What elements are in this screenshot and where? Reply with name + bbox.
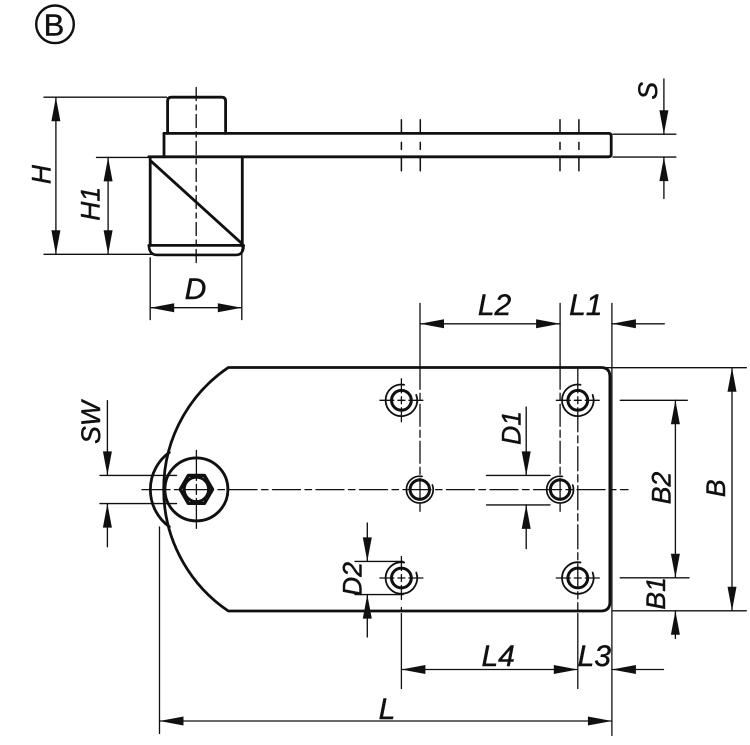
svg-text:D1: D1 bbox=[497, 411, 527, 445]
centerline column right holes bbox=[577, 369, 579, 611]
view label circle B bbox=[36, 6, 74, 44]
dimension H1 bbox=[97, 157, 149, 254]
side view: bar left end bbox=[163, 133, 166, 156]
pin inner hole bbox=[184, 477, 208, 501]
svg-text:B: B bbox=[44, 7, 65, 42]
dimension SW bbox=[100, 401, 177, 547]
side view: hole mark at x=420.3 bbox=[419, 120, 421, 171]
plate outline bbox=[164, 368, 610, 612]
svg-text:B: B bbox=[701, 479, 731, 497]
hole top-left bbox=[386, 385, 418, 417]
svg-text:L4: L4 bbox=[482, 640, 515, 673]
svg-text:L: L bbox=[379, 693, 396, 726]
dimension B2 bbox=[620, 400, 689, 578]
svg-text:L1: L1 bbox=[569, 289, 602, 322]
dimension H bbox=[44, 97, 167, 254]
svg-text:H1: H1 bbox=[76, 187, 106, 221]
svg-text:D2: D2 bbox=[338, 562, 368, 596]
dimension L bbox=[160, 720, 612, 722]
pin vertical centerline bbox=[195, 450, 197, 528]
side view: vertical centerline of boss bbox=[195, 88, 197, 266]
svg-text:B1: B1 bbox=[641, 577, 671, 609]
dimension L1 bbox=[612, 323, 664, 325]
hole bottom-left bbox=[386, 562, 418, 594]
extension line right of plate bbox=[611, 303, 613, 735]
dimension B1 bbox=[674, 611, 676, 639]
dimension S bbox=[613, 79, 676, 199]
centerline column middle-left bbox=[419, 303, 421, 367]
pin hexagon socket bbox=[180, 475, 212, 503]
hole bottom-right bbox=[562, 562, 594, 594]
svg-text:H: H bbox=[27, 164, 57, 184]
hole middle-left bbox=[406, 476, 433, 503]
svg-text:B2: B2 bbox=[647, 472, 677, 505]
dimension L4 bbox=[401, 669, 577, 671]
main horizontal centerline bbox=[142, 489, 628, 491]
dimension B bbox=[601, 368, 746, 611]
svg-text:L2: L2 bbox=[478, 289, 512, 322]
side view: square block right edge bbox=[241, 157, 244, 247]
hinge boss arc bbox=[150, 452, 169, 526]
hole top-right bbox=[562, 385, 594, 417]
dimension D2 bbox=[355, 523, 403, 637]
side view: diagonal line bbox=[151, 161, 241, 243]
centerline crosshair top-right hole bbox=[556, 399, 599, 401]
svg-text:D: D bbox=[185, 273, 207, 306]
dimension L2 bbox=[420, 323, 560, 325]
svg-text:SW: SW bbox=[76, 398, 106, 444]
side view: strap bar outline bbox=[149, 133, 611, 156]
side view: bottom lip bbox=[149, 246, 244, 255]
pin outer circle bbox=[165, 458, 228, 521]
side view: top boss block bbox=[168, 97, 226, 133]
extension line below bottom-left hole bbox=[400, 614, 402, 689]
dimension L3 bbox=[612, 669, 664, 671]
side view: square block bottom edge bbox=[149, 244, 244, 247]
centerline crosshair bottom-left hole bbox=[380, 577, 423, 579]
centerline crosshair bottom-right hole bbox=[556, 577, 599, 579]
svg-text:L3: L3 bbox=[578, 640, 612, 673]
svg-text:S: S bbox=[633, 82, 663, 100]
centerline column middle-right bbox=[559, 303, 561, 367]
hole middle-right bbox=[547, 476, 574, 503]
centerline crosshair top-left hole bbox=[142, 303, 628, 735]
side view: hole mark at x=401.4 bbox=[401, 120, 579, 171]
dimension D1 bbox=[487, 407, 551, 549]
side view: hole mark at x=560 bbox=[559, 120, 561, 171]
extension line left of plate bbox=[159, 527, 161, 734]
side view: square block left edge bbox=[149, 157, 152, 245]
dimension D bbox=[150, 249, 242, 320]
side view: hole mark at x=578.9 bbox=[578, 120, 580, 171]
